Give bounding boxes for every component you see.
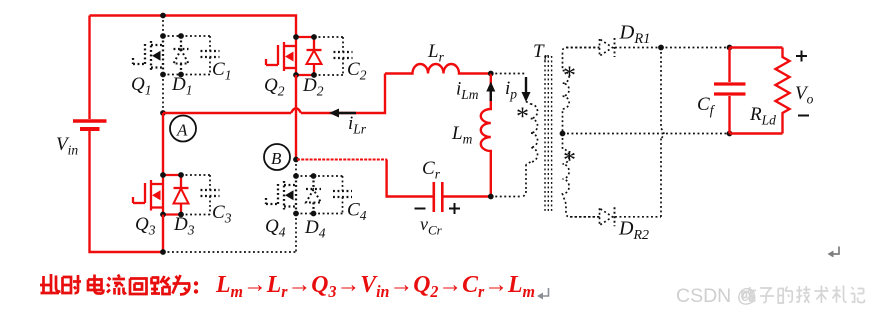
node A circle (170, 116, 196, 142)
inductor Lr (385, 64, 491, 74)
junction Lr/Lm/primary (488, 71, 494, 77)
inductor Lm (481, 74, 491, 198)
svg-text:CSDN @: CSDN @ (676, 285, 756, 307)
wire node A to Lr riser with crossover hop (163, 112, 291, 114)
caption return mark (541, 288, 549, 296)
svg-text:C3: C3 (212, 202, 232, 226)
paragraph return mark right (831, 247, 839, 255)
node B dot (293, 157, 299, 163)
capacitor Cf (728, 48, 730, 83)
label Cr plus sign (449, 208, 460, 210)
diode D1 (180, 36, 182, 49)
node B circle (264, 144, 290, 170)
diode DR2 (600, 208, 613, 225)
wire node B to Cr (red dashed over dotted) (297, 159, 387, 161)
svg-text:vCr: vCr (420, 214, 443, 238)
svg-text:A: A (176, 121, 188, 140)
wire Q2 source to node B (295, 75, 297, 160)
diode D3 (180, 175, 182, 188)
wire Q2-D2 bottom tie (296, 74, 314, 76)
transformer Tr core (544, 56, 546, 212)
svg-text:RLd: RLd (749, 104, 776, 128)
wire Q1 source to node A (dotted) (162, 75, 164, 114)
svg-text:C2: C2 (347, 59, 367, 83)
junction top rail / Q1 drain (160, 13, 166, 19)
transformer Tr secondary top winding (563, 48, 600, 134)
resistor RLd (776, 48, 790, 134)
wire ip lead to primary top (525, 97, 527, 102)
wire bottom rail dotted segment (163, 251, 296, 253)
capacitor Cr (432, 182, 435, 212)
wire Cr right lead to Lm bottom (443, 195, 490, 197)
junction dots Q4/D4 (293, 173, 299, 179)
wire Q3-D3 bottom tie (163, 213, 181, 215)
wire node B to Q4 drain (dotted) (295, 160, 297, 177)
svg-text:Lm: Lm (451, 123, 473, 147)
svg-text:DR1: DR1 (619, 22, 651, 48)
label Cr minus sign (415, 208, 426, 210)
svg-text:Tr: Tr (533, 41, 550, 65)
svg-text:Q3: Q3 (135, 214, 156, 238)
svg-text:DR2: DR2 (618, 218, 649, 244)
svg-text:Vo: Vo (795, 83, 814, 107)
svg-text:*: * (563, 61, 576, 90)
current arrow ip (525, 77, 527, 94)
junction Cf bottom (727, 131, 733, 137)
wire DR1 cathode to output junction (615, 47, 661, 49)
svg-text:Cr: Cr (422, 158, 441, 182)
svg-text:Lm→Lr→Q3→Vin→Q2→Cr→Lm: Lm→Lr→Q3→Vin→Q2→Cr→Lm (215, 271, 535, 301)
wire Q3 source to bottom rail (162, 215, 164, 253)
wire Q4 source to bottom rail (dotted) (295, 214, 297, 253)
wire Q3-D3 top tie (163, 174, 181, 176)
transformer Tr secondary bottom winding (563, 134, 600, 217)
transistor Q1 (162, 36, 164, 75)
node A dot (160, 110, 166, 116)
wire top rail (Vin+ to Q2 drain) (90, 16, 297, 38)
junction Lm bottom / primary return (488, 194, 494, 200)
svg-text:Q4: Q4 (265, 216, 286, 240)
svg-text:*: * (563, 146, 576, 175)
junction dots Q3/D3 (160, 172, 166, 178)
transistor Q3 (162, 175, 164, 215)
capacitor C4 (314, 175, 343, 177)
wire DR2 cathode to vertical tie (615, 216, 661, 218)
wire rectifier output to filter (dotted) (661, 47, 730, 49)
capacitor C3 (181, 174, 210, 176)
wire output bottom rail (730, 132, 783, 134)
junction Cf top (727, 45, 733, 51)
wire Vin bottom to lower-left rail (90, 131, 164, 252)
svg-text:Vin: Vin (56, 134, 78, 158)
wire Q1-D1 bottom tie (163, 74, 181, 76)
transistor Q4 (295, 176, 297, 214)
label output plus sign (796, 55, 807, 57)
diode D2 (313, 37, 315, 50)
transistor Q2 (295, 37, 297, 75)
wire Q1 drain leg (dotted) (162, 16, 164, 37)
svg-text:C4: C4 (347, 200, 367, 224)
junction dots Q1/D1 (160, 33, 166, 39)
wire Q2-D2 top tie (296, 36, 314, 38)
svg-text:D3: D3 (173, 214, 195, 238)
wire Vin top lead (88, 16, 90, 120)
wire center tap to output return (563, 133, 730, 135)
transformer Tr primary winding (531, 104, 538, 162)
current arrow iLm (490, 89, 492, 101)
svg-text:Q1: Q1 (131, 74, 151, 98)
capacitor C2 (314, 36, 343, 38)
center tap junction (560, 131, 566, 137)
svg-text:Q2: Q2 (264, 75, 285, 99)
wire Q4-D4 bottom tie (296, 213, 314, 215)
svg-text:C1: C1 (212, 59, 231, 83)
diode D4 (312, 176, 314, 189)
current arrow iLr (338, 112, 356, 114)
svg-text:Cf: Cf (697, 94, 716, 118)
wire Lm junction to ip lead (dotted) (491, 73, 526, 75)
wire Q1-D1 top tie (163, 35, 181, 37)
svg-text:iLr: iLr (348, 113, 367, 137)
capacitor C1 (181, 35, 210, 37)
svg-text:D4: D4 (304, 217, 326, 241)
wire rectifier vertical tie with hop (660, 48, 662, 129)
svg-text:Lr: Lr (427, 41, 445, 65)
wire output top rail (730, 46, 783, 48)
battery Vin (73, 119, 107, 123)
wire Cr left lead (387, 160, 433, 197)
junction DR1/rail (658, 45, 664, 51)
svg-text:D1: D1 (171, 74, 192, 98)
svg-text:*: * (516, 102, 529, 131)
wire Q4-D4 top tie (296, 175, 314, 177)
diode DR1 (600, 39, 613, 56)
caption Chinese text 此时电流回路为： (40, 274, 198, 295)
wire primary bottom return (dotted) (526, 162, 531, 165)
wire node A to Q3 drain (162, 113, 164, 175)
svg-text:B: B (271, 149, 282, 168)
wire secondary bottom to DR2 (570, 216, 600, 218)
svg-text:D2: D2 (302, 75, 324, 99)
svg-text:iLm: iLm (456, 79, 479, 103)
junction bottom rail (160, 249, 166, 255)
label output minus sign (798, 115, 809, 117)
junction dots Q2/D2 (293, 34, 299, 40)
wire secondary top to DR1 (567, 47, 600, 49)
svg-text:ip: ip (505, 78, 517, 102)
